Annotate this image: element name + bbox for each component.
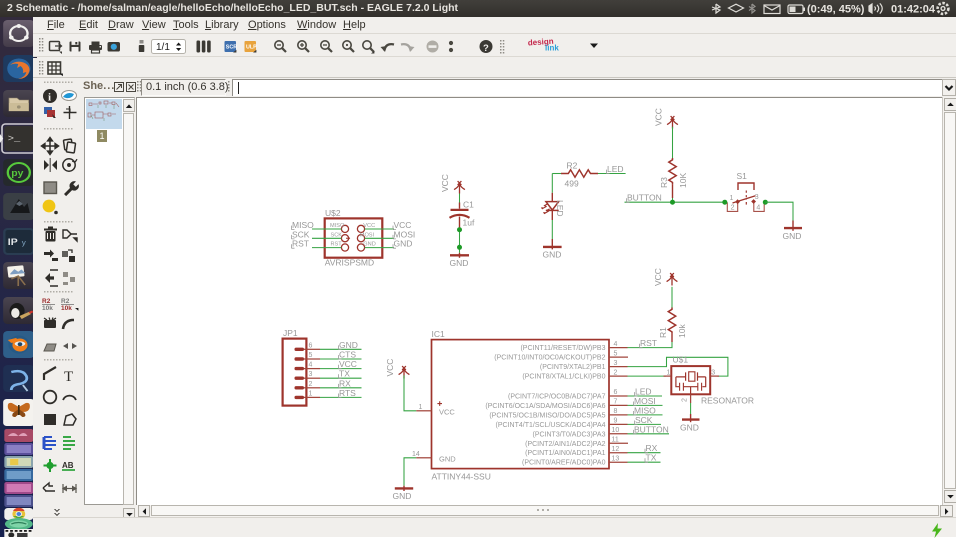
wire BUTTON net from pin10: [628, 433, 670, 435]
ic IC1 pin 1 number: [419, 404, 423, 411]
svg-text:(PCINT4/T1/SCL/USCK/ADC4)PA4: (PCINT4/T1/SCL/USCK/ADC4)PA4: [496, 422, 606, 429]
wire MISO left: [312, 228, 341, 230]
svg-text:8: 8: [614, 408, 618, 415]
led LED1 emission arrows: [541, 204, 550, 214]
net label VCC JP1: [339, 359, 357, 369]
svg-text:RESONATOR: RESONATOR: [701, 395, 754, 405]
svg-text:VCC: VCC: [363, 223, 375, 229]
ic IC1 pin 1 stub: [416, 410, 431, 412]
wire RST left: [312, 247, 341, 249]
resistor R2 value 499: [565, 178, 579, 188]
wire MOSI right: [365, 237, 394, 239]
wire S1 to GND corner: [765, 202, 793, 220]
svg-text:(PCINT2/AIN1/ADC2)PA2: (PCINT2/AIN1/ADC2)PA2: [525, 441, 605, 448]
svg-text:R3: R3: [659, 177, 669, 188]
svg-text:TX: TX: [646, 453, 657, 463]
net label RTS: [339, 388, 357, 398]
svg-text:13: 13: [612, 455, 620, 462]
svg-text:py: py: [11, 169, 24, 179]
wire: [44, 367, 56, 380]
switch S1 pin numbers: [730, 194, 761, 211]
net label LED: [607, 164, 624, 174]
ic IC1 right pin numbers: [612, 341, 620, 463]
part U$2 name label: [325, 208, 341, 218]
svg-text:RTS: RTS: [339, 388, 356, 398]
switch S1 lever: [733, 196, 756, 203]
svg-text:RST: RST: [640, 338, 657, 348]
svg-text:ULP: ULP: [246, 45, 257, 51]
info: [43, 89, 57, 103]
resonator U$1 pin3 number: [711, 370, 715, 377]
svg-text:(PCINT5/OC1B/MISO/DO/ADC5)PA5: (PCINT5/OC1B/MISO/DO/ADC5)PA5: [489, 412, 605, 419]
svg-text:U$1: U$1: [673, 354, 689, 364]
svg-text:499: 499: [565, 178, 579, 188]
connector JP1 body: [283, 339, 307, 406]
capacitor C1: [450, 203, 470, 230]
svg-text:BUTTON: BUTTON: [634, 424, 669, 434]
svg-text:R1: R1: [658, 327, 668, 338]
svg-text:3: 3: [711, 370, 715, 377]
svg-text:3: 3: [614, 360, 618, 367]
value: [61, 298, 78, 312]
erc: [43, 483, 55, 491]
wire JP1 TX: [320, 377, 362, 379]
gateswap: [63, 230, 77, 241]
svg-text:link: link: [545, 44, 559, 53]
supply VCC above R3 text: [654, 108, 664, 126]
svg-text:LED: LED: [607, 164, 624, 174]
wire resonator pin2 to GND: [690, 403, 692, 414]
smash: [44, 318, 56, 329]
bus: [44, 437, 56, 449]
dimension: [63, 484, 76, 493]
resistor R1 value 10k: [677, 324, 687, 338]
ground below resonator text: [680, 423, 699, 433]
net label GND JP1: [339, 340, 358, 350]
svg-text:MISO: MISO: [634, 405, 656, 415]
svg-text:JP1: JP1: [283, 328, 298, 338]
svg-text:3: 3: [755, 194, 759, 201]
svg-text:LED: LED: [555, 200, 565, 217]
net label TX JP1: [339, 369, 351, 379]
ground below resonator: [682, 414, 700, 422]
wire R2 down to LED1: [551, 174, 553, 193]
wire GND right: [365, 247, 394, 249]
resonator U$1 value RESONATOR: [701, 395, 754, 405]
polygonize: [44, 344, 56, 351]
arrows2: [63, 343, 77, 349]
svg-text:AVRISPSMD: AVRISPSMD: [325, 258, 374, 268]
led LED1 cathode stem: [551, 210, 553, 220]
more chevron: [54, 509, 60, 516]
wire C1 to GND: [459, 229, 461, 253]
wire VCC to IC1 pin1: [404, 375, 416, 411]
svg-text:10k: 10k: [42, 305, 53, 312]
svg-text:LED: LED: [635, 387, 652, 397]
ic IC1 GND pin label: [439, 455, 456, 464]
supply VCC above C1: [454, 181, 465, 193]
svg-text:MOSI: MOSI: [360, 232, 375, 238]
svg-text:VCC: VCC: [385, 359, 395, 377]
junction dot on C1 net: [457, 227, 462, 232]
ic IC1 VCC plus mark: [437, 401, 442, 406]
wire RX net from pin12: [628, 452, 661, 454]
supply VCC above R3: [667, 116, 678, 128]
svg-text:5: 5: [309, 352, 313, 359]
resonator U$1 pin2 stub: [690, 394, 692, 403]
svg-text:MISO: MISO: [330, 223, 345, 229]
svg-text:10k: 10k: [677, 324, 687, 338]
name: [42, 298, 55, 312]
move: [42, 138, 59, 155]
junction dot lower on C1 net: [457, 245, 462, 250]
svg-text:VCC: VCC: [339, 359, 357, 369]
wire SCK left: [312, 237, 341, 239]
connector U$2 inner pin labels: [330, 223, 376, 248]
svg-text:14: 14: [412, 451, 420, 458]
wire VCC to R3: [672, 127, 674, 159]
wire PB1 to resonator pin3: [628, 357, 728, 376]
svg-text:R2: R2: [61, 298, 70, 305]
connector U$2 body: [325, 218, 383, 257]
svg-text:5: 5: [614, 350, 618, 357]
svg-text:6: 6: [309, 342, 313, 349]
svg-text:GND: GND: [450, 258, 469, 268]
resonator U$1 body: [671, 366, 710, 394]
svg-text:y: y: [22, 239, 26, 247]
svg-text:SCR: SCR: [226, 45, 237, 51]
svg-text:GND: GND: [394, 239, 413, 249]
svg-text:9: 9: [614, 418, 618, 425]
supply VCC above C1 text: [440, 174, 450, 192]
net label TX pin13: [645, 453, 657, 463]
net label MISO: [292, 220, 315, 230]
ground right of S1: [784, 221, 802, 231]
svg-text:2: 2: [309, 381, 313, 388]
wire R1 down to RST: [671, 334, 673, 342]
svg-text:10k: 10k: [61, 305, 72, 312]
wire LED net from pin6: [628, 395, 663, 397]
wire VCC right: [365, 228, 394, 230]
resonator U$1 pin1 number: [667, 370, 671, 377]
svg-text:SCK: SCK: [331, 232, 343, 238]
supply VCC left of IC1 text: [385, 359, 395, 377]
switch S1 actuator dashed: [745, 191, 747, 201]
wire JP1 GND: [320, 348, 362, 350]
svg-text:3: 3: [309, 371, 313, 378]
resonator U$1 name: [673, 354, 689, 364]
svg-text:RST: RST: [331, 242, 343, 248]
svg-text:T: T: [64, 369, 73, 385]
net label MOSI right: [393, 229, 415, 239]
wire JP1 CTS: [320, 358, 362, 360]
resistor R2: [561, 170, 598, 177]
svg-text:>_: >_: [8, 134, 21, 144]
net label SCK pin9: [635, 415, 653, 425]
svg-text:1: 1: [730, 195, 734, 202]
change wrench: [64, 181, 79, 196]
circle: [44, 391, 57, 404]
net: [63, 437, 75, 449]
ic IC1 right pin stubs: [609, 348, 628, 463]
part U$2 value AVRISPSMD: [325, 258, 374, 268]
wire JP1 VCC: [320, 368, 362, 370]
wire SCK net from pin9: [628, 423, 662, 425]
wire corner to R2: [552, 173, 561, 175]
svg-text:GND: GND: [680, 423, 699, 433]
svg-text:(PCINT10/INT0/OC0A/CKOUT)PB2: (PCINT10/INT0/OC0A/CKOUT)PB2: [494, 355, 605, 362]
connector JP1 name: [283, 328, 298, 338]
polygon: [64, 414, 76, 425]
wire TX net from pin13: [628, 461, 661, 463]
svg-text:RST: RST: [292, 239, 309, 249]
svg-text:4: 4: [309, 362, 313, 369]
resonator U$1 pin2 number: [681, 398, 688, 402]
svg-text:IP: IP: [8, 238, 18, 248]
svg-text:R2: R2: [567, 160, 578, 170]
resistor R3: [669, 158, 676, 184]
wire JP1 RTS: [320, 396, 362, 398]
wire IC1 pin14 to GND: [404, 458, 416, 486]
arc: [63, 396, 76, 400]
net label MOSI pin7: [634, 396, 656, 406]
net label SCK: [292, 229, 310, 239]
svg-text:GND: GND: [439, 455, 456, 464]
ic IC1 pin 14 stub: [416, 457, 431, 459]
svg-text:CTS: CTS: [339, 350, 356, 360]
paint: [43, 200, 56, 213]
resonator U$1 pin3 stub: [710, 375, 719, 377]
split: [45, 270, 58, 286]
miter: [63, 320, 74, 329]
resistor R1 name: [658, 327, 668, 338]
capacitor C1 name: [463, 200, 474, 210]
replace: [62, 250, 75, 262]
svg-text:1: 1: [667, 370, 671, 377]
svg-text:6: 6: [614, 389, 618, 396]
copy: [63, 139, 75, 153]
ic IC1 body: [432, 340, 610, 469]
net label RX pin12: [645, 443, 658, 453]
capacitor C1 value 1uf: [463, 218, 475, 228]
rotate: [63, 159, 77, 171]
led LED1: [546, 202, 559, 211]
net label LED pin6: [635, 387, 652, 397]
svg-text:2: 2: [681, 398, 688, 402]
resistor R3 name: [659, 177, 669, 188]
junction: [44, 459, 57, 472]
svg-text:01:42:04: 01:42:04: [891, 4, 936, 16]
invoke: [63, 272, 75, 285]
svg-text:7: 7: [614, 399, 618, 406]
ic IC1 name: [432, 329, 446, 339]
svg-text:(PCINT9/XTAL2)PB1: (PCINT9/XTAL2)PB1: [540, 364, 606, 371]
net label BUTTON: [627, 193, 662, 203]
svg-text:RX: RX: [646, 443, 658, 453]
ic IC1 VCC pin label: [439, 408, 455, 417]
svg-text:10: 10: [612, 427, 620, 434]
svg-text:R2: R2: [42, 298, 51, 305]
svg-text:S1: S1: [737, 171, 748, 181]
svg-text:(PCINT1/AIN0/ADC1)PA1: (PCINT1/AIN0/ADC1)PA1: [525, 450, 605, 457]
resistor R1: [668, 308, 675, 334]
svg-text:(PCINT8/XTAL1/CLKI)PB0: (PCINT8/XTAL1/CLKI)PB0: [522, 374, 605, 381]
ic IC1 value ATTINY44-SSU: [432, 472, 491, 482]
svg-text:GND: GND: [783, 231, 802, 241]
switch S1 pad 3-4: [754, 202, 764, 211]
wire PB0 to resonator pin1: [628, 375, 666, 377]
svg-text:1uf: 1uf: [463, 218, 475, 228]
svg-text:1: 1: [309, 390, 313, 397]
ground below C1 text: [450, 258, 469, 268]
svg-text:4: 4: [756, 204, 760, 211]
svg-text:IC1: IC1: [432, 329, 446, 339]
label: [62, 461, 75, 470]
svg-text:RX: RX: [339, 378, 351, 388]
svg-text:4: 4: [614, 341, 618, 348]
svg-text:1/1: 1/1: [156, 42, 170, 53]
switch S1 pin contacts: [735, 199, 756, 204]
supply VCC above R1 text: [653, 268, 663, 286]
svg-text:VCC: VCC: [439, 408, 455, 417]
wire RST net: [628, 342, 673, 348]
svg-text:BUTTON: BUTTON: [627, 193, 662, 203]
net label MISO pin8: [634, 405, 657, 415]
ic IC1 pin 14 number: [412, 451, 420, 458]
supply VCC above R1: [667, 273, 678, 285]
wire LED1 to GND: [551, 220, 553, 239]
mark: [64, 106, 77, 119]
ground right of S1 text: [783, 231, 802, 241]
resonator U$1 crystal symbol: [676, 372, 706, 394]
connector U$2 pin circles: [341, 225, 364, 251]
delete: [44, 227, 57, 242]
net label GND right: [393, 239, 412, 249]
display layers: [44, 107, 56, 118]
svg-text:VCC: VCC: [440, 174, 450, 192]
svg-text:VCC: VCC: [654, 108, 664, 126]
svg-text:1: 1: [419, 404, 423, 411]
svg-text:(0:49, 45%): (0:49, 45%): [807, 4, 865, 16]
junction dot right of S1: [763, 200, 768, 205]
switch S1 pad 1-2: [727, 202, 737, 211]
wire VCC to R1: [671, 287, 673, 308]
mirror: [44, 158, 57, 172]
ground below LED1 text: [543, 250, 562, 260]
svg-text:GND: GND: [393, 491, 412, 501]
ground below IC1: [395, 486, 413, 491]
wire BUTTON horizontal: [625, 201, 725, 203]
connector JP1 pin stubs: [304, 349, 320, 397]
svg-text:10K: 10K: [678, 173, 688, 188]
svg-text:GND: GND: [339, 340, 358, 350]
switch S1 bracket: [738, 183, 754, 190]
svg-text:(PCINT6/OC1A/SDA/MOSI/ADC6)PA6: (PCINT6/OC1A/SDA/MOSI/ADC6)PA6: [485, 403, 605, 410]
svg-text:GND: GND: [543, 250, 562, 260]
resonator U$1 pin1 stub: [664, 375, 672, 377]
svg-text:ATTINY44-SSU: ATTINY44-SSU: [432, 472, 491, 482]
net label RST: [292, 239, 310, 249]
wire R3 to BUTTON net: [672, 184, 674, 198]
net label RX JP1: [339, 378, 352, 388]
eye: [62, 91, 77, 101]
svg-text:VCC: VCC: [653, 268, 663, 286]
wire R2 to LED net: [598, 173, 626, 175]
svg-text:2: 2: [614, 369, 618, 376]
net label RST: [640, 338, 658, 348]
net label BUTTON pin10: [634, 424, 669, 434]
wire JP1 RX: [320, 387, 362, 389]
svg-text:11: 11: [612, 437, 619, 444]
junction dot left of S1: [722, 200, 727, 205]
rect: [44, 414, 56, 425]
net label VCC right: [393, 220, 411, 230]
ground below LED1: [543, 239, 562, 249]
wire VCC to C1: [459, 194, 461, 205]
ground below IC1 text: [393, 491, 412, 501]
svg-text:TX: TX: [339, 369, 350, 379]
net label CTS: [339, 350, 357, 360]
wire MOSI net from pin7: [628, 404, 663, 406]
svg-text:GND: GND: [363, 242, 375, 248]
svg-text:C1: C1: [463, 200, 474, 210]
switch S1 name: [737, 171, 748, 181]
connector JP1 pads: [295, 348, 305, 400]
svg-text:(PCINT3/T0/ADC3)PA3: (PCINT3/T0/ADC3)PA3: [533, 431, 606, 438]
svg-text:i: i: [48, 92, 51, 104]
resistor R2 name: [567, 160, 578, 170]
pinswap: [44, 250, 58, 262]
supply VCC left of IC1: [399, 366, 410, 378]
wire MISO net from pin8: [628, 414, 663, 416]
group: [44, 182, 57, 194]
svg-text:AB: AB: [62, 461, 74, 470]
resistor R3 value 10K: [678, 173, 688, 188]
svg-text:U$2: U$2: [325, 208, 341, 218]
connector JP1 pin numbers: [309, 342, 313, 397]
led LED1 anode stem: [551, 193, 553, 202]
ic IC1 port names: [485, 345, 605, 467]
svg-text:2: 2: [731, 204, 735, 211]
junction dot below R3: [670, 200, 675, 205]
svg-text:(PCINT0/AREF/ADC0)PA0: (PCINT0/AREF/ADC0)PA0: [522, 460, 606, 467]
svg-text:?: ?: [483, 43, 489, 54]
ground below C1: [450, 253, 469, 258]
led LED1 label text: [555, 200, 565, 217]
svg-text:(PCINT7/ICP/OC0B/ADC7)PA7: (PCINT7/ICP/OC0B/ADC7)PA7: [508, 394, 606, 401]
svg-text:(PCINT11/RESET/DW)PB3: (PCINT11/RESET/DW)PB3: [520, 345, 605, 352]
svg-text:12: 12: [612, 446, 620, 453]
